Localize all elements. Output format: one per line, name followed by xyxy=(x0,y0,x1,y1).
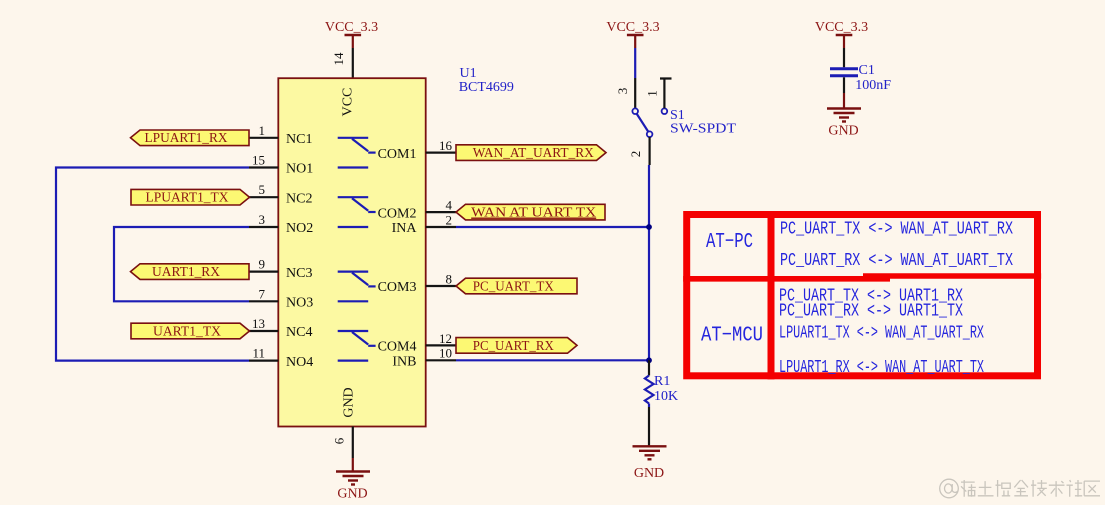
net label flag WAN AT UART TX (pin 4), underlined xyxy=(456,204,605,220)
svg-text:4: 4 xyxy=(446,198,453,213)
U1 left pin names xyxy=(286,132,313,370)
capacitor C1 100nF xyxy=(830,63,891,93)
wire loop NO2 to NO3 xyxy=(114,227,249,301)
svg-text:2: 2 xyxy=(446,212,453,227)
svg-text:NC2: NC2 xyxy=(286,191,312,206)
svg-text:NO3: NO3 xyxy=(286,296,313,311)
svg-text:15: 15 xyxy=(252,153,265,168)
U1 right pins xyxy=(426,153,456,361)
svg-text:PC_UART_TX: PC_UART_TX xyxy=(473,279,554,294)
net label flag LPUART1_RX (pin 1) xyxy=(131,130,250,146)
ground under U1 pin 6 xyxy=(336,472,370,485)
svg-text:COM4: COM4 xyxy=(378,340,417,355)
svg-text:12: 12 xyxy=(439,331,452,346)
svg-text:1: 1 xyxy=(645,90,660,97)
wire junction to R1 xyxy=(648,360,650,375)
table outer border xyxy=(687,215,1038,376)
analog switch glyph unit 1 inside U1 xyxy=(338,138,376,168)
analog switch glyph unit 2 inside U1 xyxy=(338,197,376,227)
wire C1 to GND xyxy=(843,77,845,93)
U1 left pin numbers xyxy=(252,123,266,361)
wire R1 to GND xyxy=(648,404,650,408)
svg-text:R1: R1 xyxy=(654,374,670,389)
IC U1 BCT4699 body xyxy=(278,66,514,427)
svg-text:VCC_3.3: VCC_3.3 xyxy=(815,20,868,35)
svg-text:INA: INA xyxy=(392,221,418,236)
ground under R1 xyxy=(633,446,667,459)
wire loop NO1 to NO4 xyxy=(56,168,249,361)
svg-text:GND: GND xyxy=(342,387,357,417)
net label flag UART1_RX (pin 9) xyxy=(131,264,250,280)
svg-text:2: 2 xyxy=(628,151,643,158)
U1 right pin names xyxy=(378,147,418,370)
wire INB (pin 10) to switch net xyxy=(456,359,649,361)
net label flag LPUART1_TX (pin 5) xyxy=(131,189,250,205)
power symbol VCC_3.3 over U1 pin 14 xyxy=(325,20,378,48)
svg-text:14: 14 xyxy=(331,52,346,66)
analog switch glyph unit 4 inside U1 xyxy=(338,331,376,361)
svg-text:BCT4699: BCT4699 xyxy=(459,80,514,95)
svg-text:3: 3 xyxy=(259,212,266,227)
table row divider xyxy=(683,276,1041,279)
svg-text:AT−MCU: AT−MCU xyxy=(701,325,763,348)
svg-text:UART1_RX: UART1_RX xyxy=(152,265,220,280)
svg-text:1: 1 xyxy=(259,123,266,138)
svg-text:LPUART1_TX <-> WAN_AT_UART_RX: LPUART1_TX <-> WAN_AT_UART_RX xyxy=(779,323,984,344)
svg-text:INB: INB xyxy=(392,355,416,370)
wire S1 pin 2 down xyxy=(648,137,650,165)
svg-text:5: 5 xyxy=(259,182,266,197)
svg-text:PC_UART_RX <-> WAN_AT_UART_TX: PC_UART_RX <-> WAN_AT_UART_TX xyxy=(780,250,1013,271)
junction node at INA xyxy=(646,224,652,230)
U1 left pins xyxy=(249,138,278,361)
svg-text:COM2: COM2 xyxy=(378,206,417,221)
svg-text:13: 13 xyxy=(252,316,265,331)
resistor R1 10K xyxy=(645,374,678,404)
svg-text:VCC: VCC xyxy=(341,88,356,117)
svg-text:COM3: COM3 xyxy=(378,280,417,295)
net label flag PC_UART_RX (pin 12) xyxy=(456,338,577,354)
wire VCC to S1 pin 3 xyxy=(634,48,636,78)
svg-text:NO4: NO4 xyxy=(286,355,313,370)
net label flag PC_UART_TX (pin 8) xyxy=(456,278,577,294)
svg-text:PC_UART_RX <-> UART1_TX: PC_UART_RX <-> UART1_TX xyxy=(779,300,963,321)
svg-text:UART1_TX: UART1_TX xyxy=(153,324,221,339)
svg-text:NO2: NO2 xyxy=(286,221,313,236)
wire pin 14 xyxy=(352,48,354,78)
svg-text:WAN AT UART TX: WAN AT UART TX xyxy=(471,206,596,221)
svg-text:COM1: COM1 xyxy=(378,147,417,162)
svg-text:3: 3 xyxy=(615,88,630,95)
svg-text:GND: GND xyxy=(828,123,858,138)
svg-text:LPUART1_TX: LPUART1_TX xyxy=(146,191,229,206)
svg-text:WAN_AT_UART_RX: WAN_AT_UART_RX xyxy=(473,146,594,161)
table column divider xyxy=(768,211,775,379)
svg-text:GND: GND xyxy=(634,466,664,481)
svg-text:NO1: NO1 xyxy=(286,162,313,177)
power symbol VCC_3.3 over S1 xyxy=(606,20,659,48)
svg-text:AT−PC: AT−PC xyxy=(706,231,753,254)
junction node at INB xyxy=(646,357,652,363)
svg-text:10: 10 xyxy=(439,346,452,361)
svg-text:11: 11 xyxy=(252,346,265,361)
wire VCC to C1 xyxy=(843,48,845,67)
ground under C1 xyxy=(827,109,861,122)
svg-text:6: 6 xyxy=(332,437,347,444)
switch S1 SW-SPDT xyxy=(615,79,736,158)
wire INA (pin 2) to switch net xyxy=(456,226,649,228)
svg-text:16: 16 xyxy=(439,138,453,153)
U1 right pin numbers xyxy=(439,138,453,361)
svg-text:8: 8 xyxy=(446,271,453,286)
svg-text:SW-SPDT: SW-SPDT xyxy=(670,122,736,137)
svg-text:LPUART1_RX: LPUART1_RX xyxy=(145,131,228,146)
svg-text:GND: GND xyxy=(337,487,367,502)
analog switch glyph unit 3 inside U1 xyxy=(338,272,376,302)
svg-text:NC3: NC3 xyxy=(286,266,312,281)
watermark xyxy=(940,479,1100,498)
svg-text:10K: 10K xyxy=(654,389,678,404)
svg-text:PC_UART_RX: PC_UART_RX xyxy=(473,339,554,354)
svg-text:7: 7 xyxy=(259,286,266,301)
net label flag WAN_AT_UART_RX (pin 16) xyxy=(456,145,606,161)
svg-text:LPUART1_RX <-> WAN_AT_UART_TX: LPUART1_RX <-> WAN_AT_UART_TX xyxy=(779,357,984,378)
svg-text:100nF: 100nF xyxy=(855,78,891,93)
svg-text:VCC_3.3: VCC_3.3 xyxy=(325,20,378,35)
net label flag UART1_TX (pin 13) xyxy=(131,323,250,339)
svg-text:PC_UART_TX <-> WAN_AT_UART_RX: PC_UART_TX <-> WAN_AT_UART_RX xyxy=(780,219,1013,240)
svg-text:U1: U1 xyxy=(460,66,477,81)
svg-text:VCC_3.3: VCC_3.3 xyxy=(606,20,659,35)
power symbol VCC_3.3 over C1 xyxy=(815,20,868,48)
svg-text:9: 9 xyxy=(259,257,266,272)
svg-text:NC1: NC1 xyxy=(286,132,312,147)
svg-text:NC4: NC4 xyxy=(286,325,312,340)
svg-text:C1: C1 xyxy=(859,63,875,78)
U1 bottom pin 6 xyxy=(352,427,354,459)
